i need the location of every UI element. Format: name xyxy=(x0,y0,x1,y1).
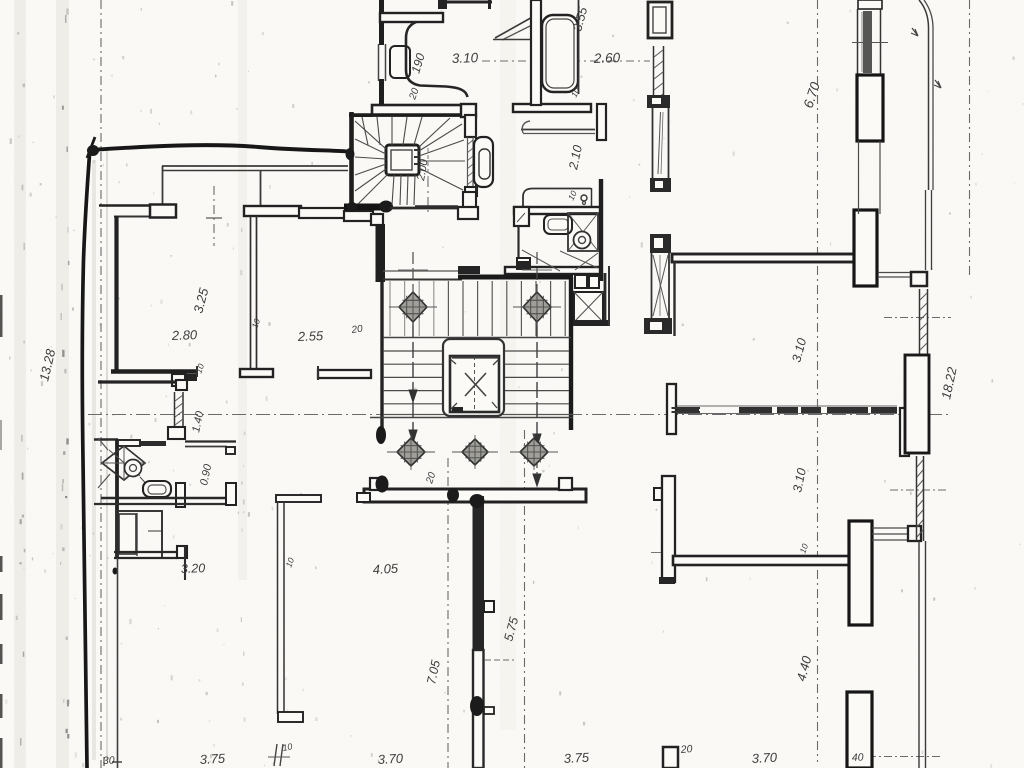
svg-text:3.75: 3.75 xyxy=(563,750,590,766)
svg-text:2.55: 2.55 xyxy=(297,328,325,344)
svg-text:2.60: 2.60 xyxy=(593,50,621,66)
svg-text:4.05: 4.05 xyxy=(372,561,399,577)
svg-text:3.75: 3.75 xyxy=(199,751,226,767)
svg-text:3.70: 3.70 xyxy=(751,750,778,766)
svg-text:3.10: 3.10 xyxy=(452,50,479,66)
svg-text:2.80: 2.80 xyxy=(171,327,199,343)
svg-text:20: 20 xyxy=(679,743,693,756)
svg-text:3.70: 3.70 xyxy=(377,751,404,767)
svg-text:20: 20 xyxy=(350,323,364,336)
svg-text:40: 40 xyxy=(852,751,864,764)
svg-text:10: 10 xyxy=(282,741,294,753)
svg-text:3.20: 3.20 xyxy=(181,561,206,576)
svg-text:30: 30 xyxy=(103,755,115,767)
